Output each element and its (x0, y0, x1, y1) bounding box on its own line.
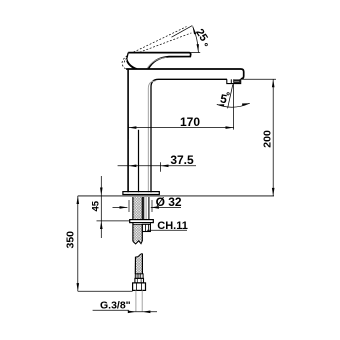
170 right arrowhead (226, 126, 234, 129)
Ø32 left arrowhead (120, 206, 128, 209)
G3/8 left arrowhead (128, 311, 136, 314)
svg-text:350: 350 (65, 231, 77, 249)
handle top extension line (190, 52, 200, 54)
Ø32 left extension tick (129, 200, 152, 212)
horseshoe washer (130, 220, 154, 223)
hose lower break cut (136, 254, 143, 257)
G3/8 hex nut (133, 283, 146, 291)
svg-text:45: 45 (90, 200, 101, 211)
ferrule collar facets (137, 278, 141, 283)
45 bottom arrowhead (100, 221, 103, 229)
ferrule ribs (137, 274, 141, 279)
svg-text:200: 200 (262, 130, 274, 148)
170 left extension tick (127, 124, 129, 139)
hose upper break cut (133, 241, 142, 244)
37.5 right arrowhead (160, 165, 168, 168)
base flange (123, 192, 159, 195)
mounting nut CH11 (142, 224, 150, 231)
washer lower lip (133, 223, 150, 225)
flex hose upper segment hatched (133, 197, 142, 242)
5 arc right arrowhead (242, 103, 250, 105)
dimension Ø32 line left (113, 206, 128, 208)
37.5 left arrowhead (128, 165, 136, 168)
handle lip curve (127, 59, 137, 69)
dimension 350 vertical line (77, 196, 79, 291)
350 top arrowhead (77, 196, 80, 204)
ferrule crimp ribbed section (135, 274, 143, 279)
body left edge (127, 69, 129, 192)
200 bottom arrowhead (272, 188, 275, 196)
Ø32 right arrowhead (151, 206, 159, 209)
aerator box (227, 79, 241, 84)
phantom handle boot dashed arc (122, 56, 127, 69)
phantom handle lower dashed line (140, 33, 192, 52)
45 top arrowhead (100, 188, 103, 196)
5 degree tilted ray (228, 85, 233, 109)
handle underside highlight arc (147, 57, 167, 69)
nut facet lines (145, 224, 148, 231)
aerator inner insert (234, 79, 240, 82)
350 bottom arrowhead (77, 283, 80, 291)
45 lower extension line (97, 220, 131, 222)
dimension 170 line (128, 127, 233, 129)
tail pipe (136, 290, 142, 311)
350 bottom connector line (78, 290, 133, 292)
handle lip inner curve (127, 61, 134, 68)
200 top arrowhead (272, 79, 275, 87)
5 degree centerline (233, 84, 235, 130)
body inner highlight line (148, 81, 155, 192)
hose upper right edge (141, 197, 143, 241)
counter line (78, 195, 274, 197)
dimension 37.5 line (118, 165, 196, 167)
svg-text:G.3/8": G.3/8" (100, 300, 131, 312)
handle lever outline (128, 53, 191, 69)
5 degree dimension arc (217, 103, 250, 107)
dimension 45 vertical line (100, 176, 102, 238)
body inner rear line (138, 130, 140, 192)
G3/8 underline (93, 309, 129, 311)
5 arc left arrowhead (217, 104, 224, 106)
handle left edge (127, 53, 128, 59)
svg-text:37.5: 37.5 (170, 153, 194, 167)
flex hose lower segment hatched (135, 254, 142, 274)
CH.11 leader underline (147, 229, 187, 231)
25 arc bottom arrowhead (197, 44, 199, 52)
mounting stud (144, 197, 149, 220)
aerator divider (230, 79, 232, 83)
25 degree dimension arc (193, 26, 199, 52)
170 left arrowhead (128, 126, 136, 129)
25 arc top arrowhead (193, 26, 197, 34)
dimension 200 vertical line (272, 79, 274, 196)
handle lip dark sliver (127, 59, 138, 69)
mounting stud highlight (145, 197, 147, 220)
svg-text:170: 170 (180, 115, 200, 129)
extension line from spout underside to 200 dim (241, 78, 276, 80)
svg-text:Ø 32: Ø 32 (156, 195, 182, 209)
G3/8 nut facets (136, 283, 141, 291)
phantom handle upper dashed line (133, 27, 186, 53)
phantom handle boot inner dashed arc (124, 58, 127, 64)
G3/8 right arrowhead (142, 311, 150, 314)
hose lower right edge (141, 254, 143, 274)
spout underside right of aerator (241, 78, 244, 80)
Ø32 dimension underline (151, 206, 181, 208)
25 degree ray (172, 26, 193, 38)
dimension G3/8 line (129, 311, 157, 313)
svg-text:25: 25 (193, 27, 210, 44)
ferrule collar (135, 278, 144, 283)
hose upper left edge (132, 197, 134, 241)
hose lower left edge (134, 257, 136, 274)
spout top line (126, 69, 244, 79)
body inner contour with spout underside (151, 79, 227, 192)
